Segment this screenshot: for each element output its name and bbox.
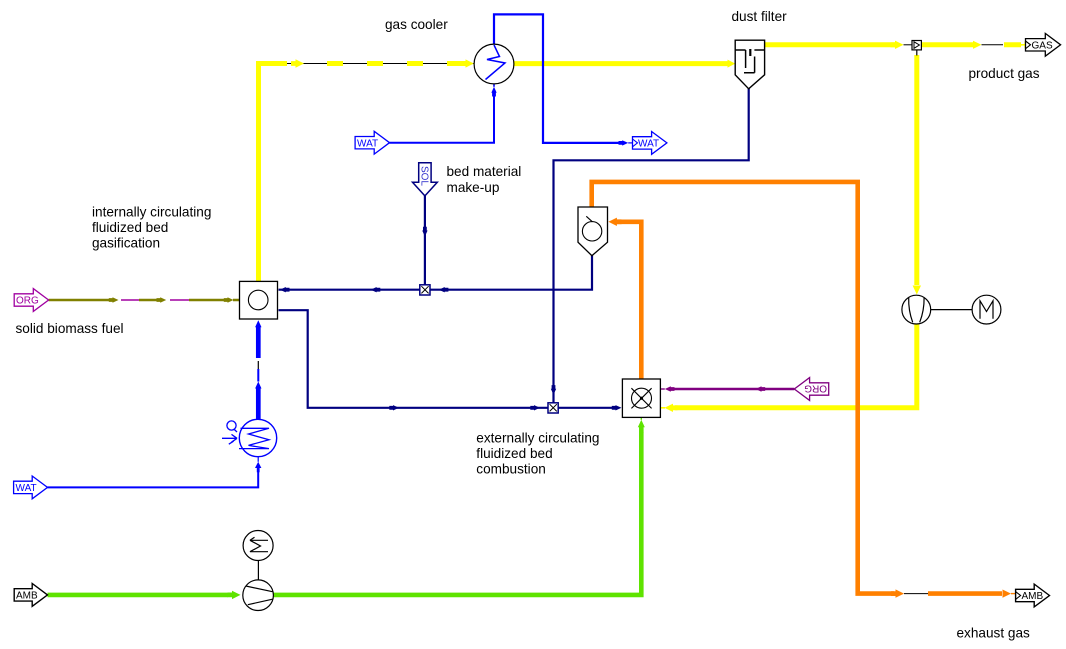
cyclone separator — [578, 207, 608, 256]
wire: blue feedwater WAT inlet to heat exchanger — [48, 469, 259, 487]
svg-text:AMB: AMB — [1022, 591, 1044, 602]
svg-text:solid biomass fuel: solid biomass fuel — [16, 321, 124, 336]
mixer node SOL / bed material — [420, 285, 430, 295]
svg-text:WAT: WAT — [357, 138, 378, 149]
svg-text:product gas: product gas — [969, 66, 1040, 81]
wire: yellow line splitter to GAS outlet — [922, 42, 974, 47]
splitter node product gas tee — [912, 41, 921, 50]
svg-text:fluidized bed: fluidized bed — [476, 446, 552, 461]
wire: yellow dashed line gasifier to gas cooler — [256, 61, 287, 66]
svg-text:bed material: bed material — [447, 164, 522, 179]
connector WAT inlet flag feedwater — [14, 476, 48, 499]
svg-text:externally circulating: externally circulating — [476, 431, 599, 446]
connector AMB outlet flag exhaust gas — [1016, 584, 1050, 607]
wire: purple ORG fuel line to combustor — [673, 388, 794, 390]
wire: blue cooling water WAT inlet to gas cooler — [390, 96, 495, 143]
wire: yellow recycle splitter down to fan — [914, 55, 919, 285]
svg-text:WAT: WAT — [638, 139, 659, 150]
svg-text:ORG: ORG — [16, 296, 39, 307]
heat input Q indicator — [227, 421, 236, 430]
connector ORG inlet flag solid biomass — [14, 289, 48, 312]
combustor vessel — [622, 379, 660, 417]
svg-text:internally circulating: internally circulating — [92, 205, 211, 220]
steam generator heat exchanger — [239, 419, 276, 456]
svg-text:gas cooler: gas cooler — [385, 17, 448, 32]
svg-text:combustion: combustion — [476, 462, 546, 477]
svg-text:ORG: ORG — [804, 382, 827, 393]
svg-text:dust filter: dust filter — [732, 9, 788, 24]
wire: blue thick steam line heat exchanger to gasifier — [256, 327, 261, 358]
wire: yellow riser gasifier top — [256, 64, 261, 283]
fan motor M — [931, 309, 972, 311]
blower motor sigma — [243, 531, 273, 561]
svg-text:make-up: make-up — [447, 180, 500, 195]
wire: yellow line dust filter to splitter — [765, 42, 896, 47]
mixer node dust return — [548, 403, 558, 413]
wire: olive biomass fuel ORG inlet to gasifier — [49, 299, 111, 302]
wire: navy bed-material return cyclone to gasifier — [279, 256, 593, 290]
connector WAT outlet flag cooling water return — [633, 132, 667, 155]
svg-text:WAT: WAT — [16, 483, 37, 494]
connector AMB inlet flag ambient air — [14, 584, 47, 607]
wire: orange riser combustor to cyclone — [621, 222, 641, 379]
svg-text:fluidized bed: fluidized bed — [92, 220, 168, 235]
wire: blue cooling water gas cooler to WAT outlet — [494, 14, 619, 143]
wire: navy line gasifier bottom to mixer2 to combustor — [279, 310, 549, 408]
connector ORG inlet flag mirrored combustor fuel — [794, 378, 828, 401]
connector SOL inlet flag bed material — [413, 163, 438, 196]
svg-text:SOL: SOL — [419, 166, 430, 186]
wire: navy SOL make-up line to mixer — [424, 196, 426, 285]
wire: yellow line gas cooler to dust filter — [514, 61, 728, 66]
connector WAT inlet flag cooling water — [355, 131, 389, 154]
svg-text:GAS: GAS — [1032, 41, 1053, 52]
gas cooler heat exchanger — [474, 44, 514, 84]
wire: navy dust return filter to mixer2 — [554, 89, 749, 403]
dust filter — [735, 40, 764, 89]
air blower fan — [257, 561, 259, 581]
wire: orange flue gas cyclone to exhaust — [592, 182, 894, 594]
svg-text:gasification: gasification — [92, 236, 160, 251]
svg-text:exhaust gas: exhaust gas — [957, 626, 1031, 641]
wire: green air blower to combustor — [274, 432, 642, 595]
gasifier vessel — [240, 281, 278, 319]
svg-text:AMB: AMB — [16, 591, 38, 602]
wire: green air AMB inlet to blower — [48, 593, 229, 598]
recycle fan — [902, 295, 931, 324]
connector GAS outlet flag product gas — [1026, 33, 1061, 56]
wire: yellow line fan to combustor — [675, 325, 917, 408]
